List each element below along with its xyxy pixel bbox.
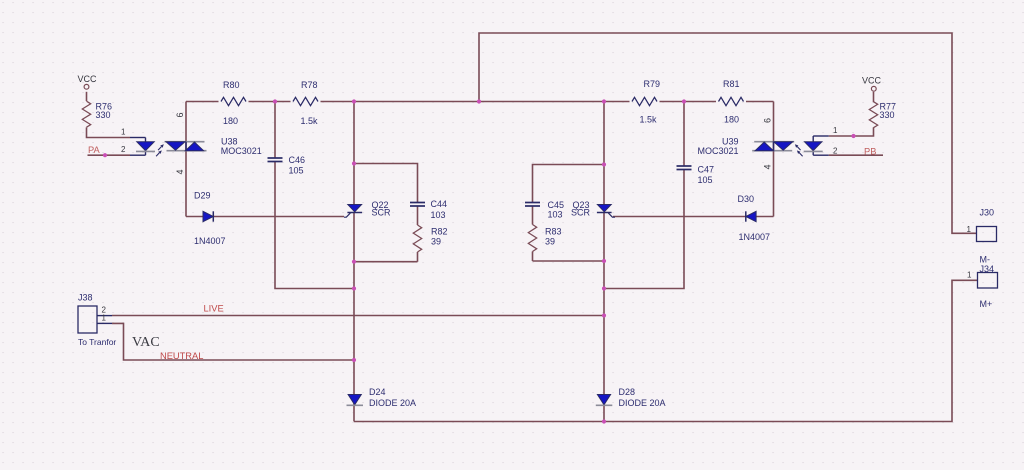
svg-text:105: 105 <box>698 175 713 185</box>
svg-text:1: 1 <box>967 270 972 279</box>
svg-text:6: 6 <box>763 118 773 123</box>
svg-text:1.5k: 1.5k <box>640 115 658 125</box>
svg-text:180: 180 <box>223 116 238 126</box>
svg-text:D28: D28 <box>619 387 636 397</box>
svg-text:2: 2 <box>121 145 126 154</box>
svg-text:103: 103 <box>431 210 446 220</box>
svg-text:C44: C44 <box>431 199 448 209</box>
svg-text:To Tranfor: To Tranfor <box>78 337 116 347</box>
svg-text:2: 2 <box>833 146 838 155</box>
svg-text:DIODE 20A: DIODE 20A <box>619 398 666 408</box>
svg-text:105: 105 <box>289 166 304 176</box>
svg-text:D29: D29 <box>194 191 211 201</box>
svg-text:R83: R83 <box>545 227 562 237</box>
svg-text:180: 180 <box>724 115 739 125</box>
svg-text:C46: C46 <box>289 155 306 165</box>
svg-text:J34: J34 <box>980 264 995 274</box>
svg-text:R82: R82 <box>431 227 448 237</box>
svg-text:DIODE 20A: DIODE 20A <box>369 398 416 408</box>
svg-text:J30: J30 <box>980 207 995 217</box>
svg-text:C45: C45 <box>548 200 565 210</box>
svg-text:1: 1 <box>121 127 126 136</box>
svg-text:MOC3021: MOC3021 <box>697 146 738 156</box>
svg-text:NEUTRAL: NEUTRAL <box>160 351 203 361</box>
svg-text:PB: PB <box>864 147 876 157</box>
svg-text:R79: R79 <box>644 79 661 89</box>
svg-text:D24: D24 <box>369 387 386 397</box>
svg-text:J38: J38 <box>78 293 93 303</box>
svg-text:SCR: SCR <box>372 208 392 218</box>
svg-text:103: 103 <box>548 210 563 220</box>
svg-text:D30: D30 <box>738 194 755 204</box>
svg-text:C47: C47 <box>698 165 715 175</box>
svg-text:330: 330 <box>96 110 111 120</box>
svg-text:SCR: SCR <box>571 208 591 218</box>
svg-text:1: 1 <box>967 225 972 234</box>
svg-text:6: 6 <box>175 112 185 117</box>
svg-text:PA: PA <box>88 145 101 155</box>
svg-text:VAC: VAC <box>132 335 160 350</box>
svg-text:1.5k: 1.5k <box>301 116 319 126</box>
svg-text:1: 1 <box>833 126 838 135</box>
svg-text:VCC: VCC <box>862 76 882 86</box>
svg-text:M-: M- <box>980 254 991 264</box>
svg-text:39: 39 <box>431 237 441 247</box>
svg-text:R78: R78 <box>301 80 318 90</box>
svg-text:1N4007: 1N4007 <box>739 232 771 242</box>
svg-text:MOC3021: MOC3021 <box>221 146 262 156</box>
svg-text:1: 1 <box>102 314 107 323</box>
svg-text:4: 4 <box>763 164 773 169</box>
svg-text:330: 330 <box>880 110 895 120</box>
svg-text:R81: R81 <box>723 79 740 89</box>
svg-text:R80: R80 <box>223 80 240 90</box>
svg-text:M+: M+ <box>980 299 993 309</box>
svg-text:1N4007: 1N4007 <box>194 236 226 246</box>
svg-text:4: 4 <box>175 169 185 174</box>
svg-text:VCC: VCC <box>78 74 98 84</box>
svg-text:39: 39 <box>545 237 555 247</box>
svg-text:LIVE: LIVE <box>204 304 224 314</box>
